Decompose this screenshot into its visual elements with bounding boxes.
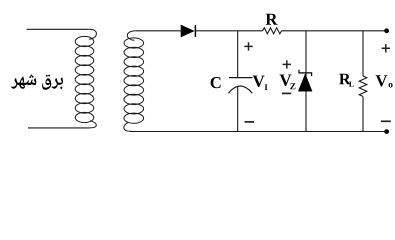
minus sign: capacitor polarity — [245, 121, 255, 123]
plus sign: capacitor polarity — [244, 42, 252, 50]
wire: primary bottom corner from coil — [90, 121, 97, 128]
wire: secondary top to diode anode — [136, 30, 181, 32]
label R_L — [339, 74, 351, 85]
plus sign: output polarity — [382, 44, 390, 52]
minus sign: zener polarity — [282, 92, 291, 94]
zener diode: triangle — [298, 74, 312, 91]
wire: zener branch — [305, 31, 307, 132]
label V_I — [253, 76, 265, 88]
label V_Z — [280, 75, 292, 87]
wire: top rail from resistor to output node — [282, 30, 387, 32]
resistor RL load: vertical zigzag — [359, 76, 367, 96]
resistor R: zigzag — [263, 28, 282, 34]
wire: load branch lower — [362, 96, 364, 131]
label C — [211, 77, 221, 88]
plus sign: zener polarity — [283, 60, 291, 68]
zener diode: cathode bar with hooked ends — [299, 70, 312, 76]
capacitor C: straight top plate — [229, 77, 253, 79]
wire: bottom rail — [130, 131, 387, 133]
node: mains source label "برق شهر" — [11, 74, 63, 90]
label R — [266, 14, 278, 25]
capacitor C: curved bottom plate — [228, 86, 252, 93]
wire: secondary bottom corner into bottom rail — [124, 122, 131, 131]
wire: capacitor branch lower — [237, 86, 239, 131]
wire: top rail from diode to resistor R — [195, 30, 262, 32]
diode D1 rectifier: triangle — [181, 25, 194, 37]
wire: secondary top corner from coil — [127, 31, 136, 41]
node: output negative terminal dot — [384, 129, 389, 134]
node: output positive terminal dot — [384, 28, 389, 33]
minus sign: output polarity — [381, 120, 391, 122]
wire: primary top corner into coil — [89, 29, 97, 39]
wire: capacitor branch upper — [237, 31, 239, 77]
diode D1 rectifier: cathode bar — [194, 25, 196, 37]
wire: primary top lead — [27, 28, 89, 30]
wire: load branch upper — [362, 31, 364, 76]
inductor: transformer primary winding — [75, 36, 94, 122]
wire: primary bottom lead — [28, 127, 90, 129]
inductor: transformer secondary winding — [124, 38, 144, 123]
label V_o — [376, 75, 388, 86]
